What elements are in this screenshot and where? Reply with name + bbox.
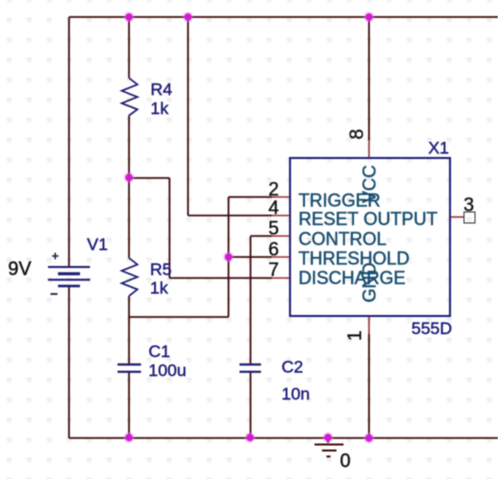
svg-text:0: 0 — [340, 451, 351, 472]
node top R4 junction — [124, 12, 134, 22]
wire trigger stub — [229, 196, 273, 198]
pin 7 stub — [272, 277, 290, 279]
svg-text:5: 5 — [268, 219, 279, 240]
svg-text:R4: R4 — [151, 80, 173, 99]
node A junction — [124, 172, 134, 182]
pin 6 stub — [272, 256, 290, 258]
IC X1 555 timer body — [290, 158, 450, 316]
svg-text:THRESHOLD: THRESHOLD — [299, 249, 410, 269]
wire C1 bottom — [128, 372, 130, 438]
svg-text:X1: X1 — [428, 139, 449, 158]
wire pin1 GND — [368, 334, 370, 438]
svg-text:C2: C2 — [282, 358, 304, 377]
svg-text:C1: C1 — [149, 342, 171, 361]
wire C2 bottom — [250, 372, 252, 438]
svg-text:100u: 100u — [149, 361, 187, 380]
svg-text:9V: 9V — [8, 259, 32, 280]
svg-text:10n: 10n — [282, 385, 310, 404]
capacitor C2 — [240, 365, 262, 372]
svg-text:OUTPUT: OUTPUT — [364, 209, 438, 229]
wire top rail — [69, 16, 498, 18]
svg-text:R5: R5 — [150, 260, 172, 279]
wire reset vertical — [187, 17, 189, 216]
svg-text:1: 1 — [345, 330, 366, 341]
wire R5 bottom to C1 — [128, 296, 130, 364]
resistor R5 — [122, 258, 138, 296]
ground — [315, 438, 344, 457]
wire bottom rail — [69, 437, 498, 439]
wire left rail lower — [68, 286, 70, 438]
svg-text:GND: GND — [360, 263, 380, 303]
wire R5 top — [128, 178, 130, 258]
svg-text:RESET: RESET — [299, 209, 359, 229]
wire control vertical to C2 — [250, 236, 252, 364]
node top VCC junction — [364, 12, 374, 22]
output terminal square pin 3 — [464, 212, 475, 223]
pin 1 stub — [368, 316, 370, 334]
pin 8 stub — [368, 140, 370, 158]
svg-text:8: 8 — [347, 129, 368, 140]
svg-text:V1: V1 — [87, 235, 108, 254]
wire discharge vertical — [169, 178, 171, 278]
svg-text:555D: 555D — [411, 319, 452, 338]
resistor R4 — [122, 78, 138, 116]
wire pin8 VCC — [368, 17, 370, 140]
pin 3 output stub — [450, 216, 464, 218]
node C2 bottom junction — [245, 432, 255, 442]
svg-text:VCC: VCC — [360, 165, 380, 203]
svg-text:4: 4 — [268, 198, 279, 219]
node top reset junction — [183, 12, 193, 22]
node ground junction — [323, 432, 333, 442]
capacitor C1 — [118, 365, 142, 372]
wire control stub — [251, 235, 273, 237]
wire node B horizontal — [129, 316, 229, 318]
pin 2 stub — [272, 196, 290, 198]
wire R4 bottom — [128, 116, 130, 179]
battery V1 — [48, 253, 90, 294]
pin 5 stub — [272, 235, 290, 237]
node C1 bottom junction — [124, 432, 134, 442]
pin 4 stub — [272, 215, 290, 217]
wire discharge horizontal — [170, 277, 273, 279]
wire node B vertical — [228, 197, 230, 317]
svg-text:1k: 1k — [151, 99, 169, 118]
wire node A horizontal — [129, 177, 170, 179]
svg-text:3: 3 — [464, 195, 475, 216]
wire R4 top — [128, 17, 130, 78]
svg-text:DISCHARGE: DISCHARGE — [299, 268, 406, 288]
svg-text:6: 6 — [268, 240, 279, 261]
node pin1 junction — [364, 433, 374, 443]
svg-text:CONTROL: CONTROL — [299, 229, 387, 249]
svg-text:1k: 1k — [150, 279, 168, 298]
node B junction — [223, 252, 233, 262]
wire left rail upper — [68, 17, 70, 267]
svg-text:7: 7 — [268, 260, 279, 281]
wire threshold stub — [229, 256, 273, 258]
wire reset stub — [188, 215, 272, 217]
